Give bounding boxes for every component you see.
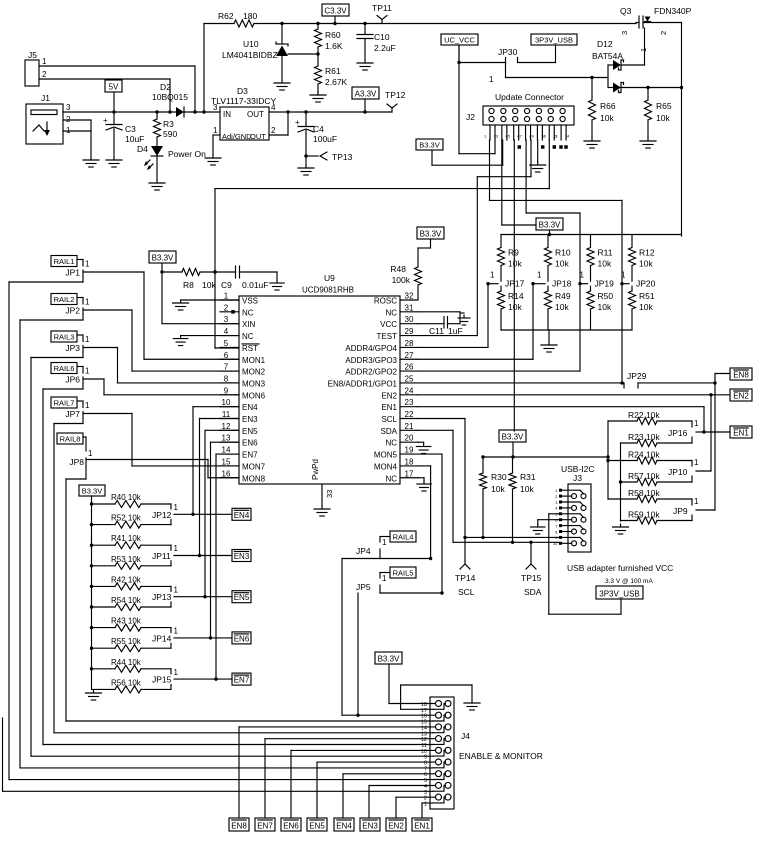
net label EN3 bottom — [360, 818, 380, 831]
resistor R49 — [545, 290, 571, 330]
svg-text:100uF: 100uF — [313, 134, 337, 144]
svg-text:VCC: VCC — [380, 320, 397, 329]
svg-text:J2: J2 — [466, 112, 475, 122]
resistor R52 — [90, 514, 171, 529]
capacitor C10 — [357, 22, 396, 60]
svg-text:10k: 10k — [508, 302, 522, 312]
wire J4 pin13 bus — [54, 732, 433, 734]
wire JP5 to J4 — [356, 593, 359, 717]
ground J2 — [530, 162, 546, 172]
svg-text:TP12: TP12 — [385, 90, 406, 100]
svg-text:1: 1 — [42, 57, 47, 66]
svg-text:JP14: JP14 — [152, 633, 172, 643]
svg-text:B3.3V: B3.3V — [420, 230, 442, 239]
resistor R31 — [509, 457, 536, 544]
svg-text:R55 10k: R55 10k — [111, 637, 142, 646]
svg-text:C10: C10 — [374, 32, 390, 42]
power label 3P3V_USB bottom — [596, 586, 643, 599]
svg-text:OUT: OUT — [247, 110, 264, 119]
J4 pin numbers — [421, 702, 427, 807]
resistor R48 — [390, 239, 430, 300]
svg-text:JP19: JP19 — [595, 279, 615, 289]
svg-text:R60: R60 — [325, 30, 341, 40]
svg-text:J3: J3 — [573, 473, 582, 483]
wire JP12 tap to EN4 — [174, 513, 232, 516]
svg-text:10k: 10k — [555, 302, 569, 312]
connector J2 Update Connector — [466, 92, 574, 125]
wire SCL pin22 — [418, 419, 465, 538]
svg-text:1: 1 — [174, 544, 179, 553]
svg-text:R24 10k: R24 10k — [628, 450, 660, 460]
svg-text:NC: NC — [385, 308, 397, 317]
svg-text:OUT: OUT — [250, 132, 266, 141]
svg-text:ROSC: ROSC — [374, 297, 397, 306]
svg-text:J5: J5 — [28, 50, 37, 60]
capacitor C11 — [418, 317, 463, 337]
wire B3.3V to J4 pin18 — [389, 664, 435, 704]
svg-text:+: + — [103, 116, 108, 125]
svg-text:C4: C4 — [313, 124, 324, 134]
jumper JP13 — [152, 585, 179, 607]
wire J2 pin to B3.3V bottom — [513, 140, 515, 431]
wire J4 pin15 bus — [66, 720, 433, 722]
wire JP1 to MON pin6 — [83, 272, 239, 359]
resistor R53 — [90, 555, 171, 570]
wire J1 pin3 rail — [63, 111, 176, 113]
ground U10 — [274, 80, 290, 90]
svg-text:7: 7 — [224, 363, 229, 372]
svg-text:RAIL6: RAIL6 — [54, 364, 75, 373]
svg-text:EN7: EN7 — [242, 451, 258, 460]
svg-text:16: 16 — [222, 469, 231, 478]
wire JP3 to MON pin8 — [83, 348, 239, 383]
svg-text:MON7: MON7 — [242, 462, 266, 471]
ground NC4 — [173, 336, 187, 346]
svg-text:10k: 10k — [202, 280, 216, 290]
wire J4 pin7 bus — [20, 767, 433, 769]
net label EN8 — [730, 368, 752, 380]
svg-text:10k: 10k — [491, 484, 505, 494]
ground D4 — [149, 180, 165, 190]
power label B3.3V pullup rail — [536, 218, 563, 236]
svg-text:TP14: TP14 — [455, 573, 476, 583]
wire pulldown ground rail — [501, 330, 632, 342]
resistor R56 — [92, 678, 172, 693]
svg-text:XIN: XIN — [242, 320, 256, 329]
svg-text:R48: R48 — [390, 264, 406, 274]
svg-text:EN4: EN4 — [234, 511, 250, 520]
svg-text:10k: 10k — [639, 302, 653, 312]
svg-text:R65: R65 — [656, 101, 672, 111]
svg-text:R43 10k: R43 10k — [111, 617, 142, 626]
net label RAIL6 — [51, 363, 77, 374]
svg-text:R40 10k: R40 10k — [111, 493, 142, 502]
power label A3.3V — [352, 87, 379, 114]
svg-text:RAIL7: RAIL7 — [54, 399, 75, 408]
text USB adapter furnished VCC — [567, 563, 673, 573]
svg-text:1: 1 — [694, 419, 699, 428]
svg-text:1: 1 — [382, 538, 387, 547]
svg-text:R51: R51 — [639, 291, 655, 301]
jumper JP10 — [668, 395, 711, 483]
J2 NC squares — [518, 145, 568, 149]
ground right pulldowns — [613, 524, 629, 534]
svg-text:EN3: EN3 — [242, 415, 258, 424]
svg-text:MON3: MON3 — [242, 379, 266, 388]
svg-text:1: 1 — [424, 801, 427, 807]
svg-text:1: 1 — [85, 335, 90, 344]
net label EN5 mid — [232, 591, 251, 603]
svg-text:UCD9081RHB: UCD9081RHB — [302, 286, 354, 295]
svg-text:2.67K: 2.67K — [325, 77, 348, 87]
power label B3.3V above R48 — [417, 227, 444, 239]
svg-text:1: 1 — [382, 574, 387, 583]
wire J4 pin1 from EN1 — [422, 803, 433, 818]
svg-text:22: 22 — [405, 410, 414, 419]
svg-text:R42 10k: R42 10k — [111, 575, 142, 584]
wire RAIL7 to J4 bus — [54, 418, 83, 733]
jumper JP16 — [668, 419, 704, 443]
svg-text:B3.3V: B3.3V — [502, 433, 524, 442]
svg-text:USB adapter furnished VCC: USB adapter furnished VCC — [567, 563, 673, 573]
power label C3.3V — [322, 4, 349, 25]
svg-text:R14: R14 — [508, 291, 524, 301]
wire J2 pin to B3.3V mid — [502, 140, 536, 225]
jumper JP12 — [152, 503, 179, 525]
resistor R11 — [587, 235, 613, 278]
resistor R24 — [608, 450, 692, 465]
wire J4 pin16 — [342, 714, 435, 716]
wire J5-2 to rail — [168, 79, 171, 114]
ground PwPd — [314, 506, 330, 516]
svg-text:R41 10k: R41 10k — [111, 534, 142, 543]
wire U9 pin11 to JP11 — [200, 419, 240, 556]
wire J2 pin to B3.3V left — [432, 140, 503, 165]
svg-text:ADDR4/GPO4: ADDR4/GPO4 — [345, 344, 397, 353]
svg-text:D4: D4 — [137, 144, 148, 154]
svg-text:33: 33 — [325, 490, 334, 498]
wire U9 pin10 to JP12 — [193, 407, 239, 515]
ground D3 Adj — [205, 155, 221, 165]
svg-text:R56 10k: R56 10k — [111, 678, 142, 687]
wire J4 pin5 bus — [9, 779, 433, 781]
svg-text:20: 20 — [405, 434, 414, 443]
svg-text:21: 21 — [405, 422, 414, 431]
svg-text:R66: R66 — [600, 101, 616, 111]
ground C9 — [270, 272, 284, 290]
svg-text:R31: R31 — [520, 472, 536, 482]
wire JP14 tap to EN6 — [174, 636, 232, 639]
svg-text:15: 15 — [222, 457, 231, 466]
svg-text:MON2: MON2 — [242, 368, 266, 377]
resistor R22 — [608, 410, 692, 425]
svg-text:UC_VCC: UC_VCC — [444, 36, 475, 45]
net label EN7 mid — [232, 673, 251, 685]
svg-text:EN7: EN7 — [257, 822, 273, 831]
svg-text:1: 1 — [174, 503, 179, 512]
J2 pin stubs and numbers — [484, 125, 570, 140]
wire EN8 net to box — [713, 374, 730, 511]
power label UC_VCC — [441, 34, 478, 63]
svg-text:180: 180 — [243, 11, 257, 21]
wire D3 pin2 OUT wrap — [269, 110, 290, 135]
svg-text:R30: R30 — [491, 472, 507, 482]
wire JP5 to MON5 — [380, 591, 444, 594]
net label EN1 bottom — [412, 818, 432, 831]
svg-text:1: 1 — [85, 298, 90, 307]
svg-text:B3.3V: B3.3V — [82, 487, 102, 496]
resistor R9 — [498, 235, 523, 278]
svg-text:R50: R50 — [598, 291, 614, 301]
svg-text:1: 1 — [537, 271, 542, 280]
svg-text:EN1: EN1 — [733, 429, 749, 438]
svg-text:RAIL1: RAIL1 — [54, 257, 75, 266]
svg-text:29: 29 — [405, 327, 414, 336]
svg-text:24: 24 — [405, 386, 414, 395]
svg-text:JP7: JP7 — [65, 409, 80, 419]
svg-text:R11: R11 — [598, 248, 613, 258]
svg-text:MON6: MON6 — [242, 391, 266, 400]
svg-text:2: 2 — [659, 31, 668, 35]
svg-text:R52 10k: R52 10k — [111, 514, 142, 523]
jumper JP17 — [486, 271, 524, 290]
wire J4 pin8 from EN5 — [317, 762, 435, 818]
ground C4 — [298, 165, 314, 175]
wire ADDR1 pin25 to JP29 — [418, 284, 624, 385]
svg-text:1: 1 — [489, 75, 494, 84]
svg-text:10k: 10k — [598, 302, 612, 312]
svg-text:17: 17 — [405, 469, 414, 478]
connector J5 — [25, 50, 195, 86]
svg-text:A3.3V: A3.3V — [355, 90, 377, 99]
wire pin20 NC ground — [418, 442, 424, 443]
jumper JP2 — [65, 298, 90, 316]
svg-text:10BQ015: 10BQ015 — [152, 92, 188, 102]
LED D4 Power On — [137, 137, 206, 180]
power label B3.3V at J2 — [416, 139, 443, 150]
svg-text:JP4: JP4 — [356, 546, 371, 556]
wire J4 pin4 from EN3 — [369, 786, 435, 819]
wire J4 pin2 from EN2 — [396, 797, 435, 818]
power label B3.3V ladder — [79, 485, 105, 689]
jumper JP18 — [531, 271, 571, 290]
wire D3 Adj to ground — [213, 135, 220, 155]
svg-text:4: 4 — [271, 103, 276, 112]
svg-text:R61: R61 — [325, 66, 341, 76]
svg-text:25: 25 — [405, 374, 414, 383]
wire JP11 tap to EN3 — [174, 554, 232, 557]
svg-text:10: 10 — [553, 541, 558, 546]
svg-text:10: 10 — [222, 398, 231, 407]
svg-text:TP11: TP11 — [372, 3, 392, 13]
wire U10 ref to divider — [288, 52, 320, 55]
svg-text:JP2: JP2 — [65, 306, 80, 316]
wire ADDR4 pin28 to JP17 — [418, 284, 488, 348]
wire pin17 NC ground — [418, 478, 424, 481]
resistor R61 — [315, 54, 348, 92]
J3 pin pads — [553, 488, 562, 546]
svg-text:EN5: EN5 — [242, 427, 258, 436]
svg-text:EN1: EN1 — [381, 403, 397, 412]
svg-text:R58 10k: R58 10k — [628, 488, 660, 498]
svg-text:RST: RST — [242, 344, 258, 353]
svg-text:RAIL5: RAIL5 — [393, 569, 414, 578]
ground ladder — [86, 690, 102, 700]
jumper JP7 — [65, 401, 90, 419]
wire J4 pin9 bus — [31, 755, 433, 757]
resistor R59 — [621, 510, 693, 525]
wire B3.3V rail JP17-JP20 — [501, 234, 682, 236]
svg-text:MON5: MON5 — [374, 451, 398, 460]
svg-text:Adj/GND: Adj/GND — [222, 132, 252, 141]
diode D2 — [152, 82, 220, 117]
svg-text:EN5: EN5 — [309, 822, 325, 831]
svg-text:JP10: JP10 — [668, 467, 688, 477]
svg-text:1: 1 — [85, 367, 90, 376]
svg-text:1: 1 — [694, 458, 699, 467]
svg-text:3.3 V @ 100 mA: 3.3 V @ 100 mA — [605, 578, 653, 585]
resistor R62 — [204, 11, 636, 27]
svg-text:MON1: MON1 — [242, 356, 266, 365]
svg-text:C9: C9 — [221, 280, 232, 290]
net label EN3 mid — [232, 550, 251, 562]
net label EN4 mid — [232, 508, 251, 520]
wire J3 ground pin — [538, 520, 559, 524]
svg-text:3P3V_USB: 3P3V_USB — [599, 590, 639, 599]
ground C3 — [106, 157, 122, 167]
test point TP12 — [385, 90, 406, 112]
wire JP4 to J4 — [342, 559, 380, 716]
net label EN6 mid — [232, 632, 251, 644]
power label B3.3V at J4 — [375, 652, 402, 664]
svg-text:27: 27 — [405, 351, 414, 360]
svg-text:SDA: SDA — [524, 587, 542, 597]
svg-text:R12: R12 — [639, 248, 655, 258]
wire J4 pin14 from EN8 — [239, 727, 435, 818]
ground C10 — [357, 60, 373, 70]
wire SDA line — [453, 541, 559, 543]
svg-text:EN2: EN2 — [733, 392, 749, 401]
svg-text:EN8: EN8 — [733, 371, 749, 380]
svg-text:JP11: JP11 — [152, 551, 171, 561]
resistor R8 — [162, 269, 236, 291]
svg-text:PwPd: PwPd — [311, 459, 320, 480]
net label EN4 bottom — [334, 818, 354, 831]
svg-text:RAIL8: RAIL8 — [60, 435, 81, 444]
U9 pin2 NC square — [231, 310, 235, 314]
svg-text:1: 1 — [580, 271, 585, 280]
resistor R65 — [645, 88, 672, 139]
jumper JP29 — [622, 371, 715, 388]
svg-text:EN6: EN6 — [283, 822, 299, 831]
svg-text:1: 1 — [621, 271, 626, 280]
svg-text:LM4041BIDBZ: LM4041BIDBZ — [222, 50, 278, 60]
svg-text:28: 28 — [405, 339, 414, 348]
wire RAIL8 to J4 bus — [66, 466, 86, 721]
jumper JP3 — [65, 335, 90, 353]
wire MON5 pin19 — [418, 454, 442, 593]
power label 5V — [105, 80, 122, 112]
svg-text:Power On: Power On — [168, 149, 206, 159]
svg-text:MON8: MON8 — [242, 474, 266, 483]
power label 3P3V_USB — [531, 34, 577, 63]
net label RAIL1 — [51, 256, 77, 267]
resistor R51 — [629, 290, 655, 330]
svg-text:TP13: TP13 — [332, 152, 353, 162]
wire J2 TEST route — [477, 140, 531, 336]
svg-text:D12: D12 — [597, 39, 613, 49]
wire U9 pin13 to JP14 — [211, 442, 240, 638]
svg-text:EN7: EN7 — [234, 676, 250, 685]
svg-text:JP30: JP30 — [498, 47, 518, 57]
svg-text:EN2: EN2 — [381, 391, 397, 400]
svg-text:1: 1 — [88, 449, 93, 458]
svg-text:R9: R9 — [508, 248, 519, 258]
test point TP13 — [304, 152, 352, 162]
svg-text:R53 10k: R53 10k — [111, 555, 142, 564]
resistor R10 — [545, 235, 571, 278]
svg-text:31: 31 — [405, 303, 414, 312]
wire J4 pin6 from EN4 — [343, 774, 435, 818]
wire NC4 to ground — [181, 335, 239, 337]
svg-text:1uF: 1uF — [448, 326, 463, 336]
svg-text:2.2uF: 2.2uF — [374, 43, 396, 53]
wire JP30 pin1 to D12 — [506, 68, 609, 80]
svg-text:23: 23 — [405, 398, 414, 407]
svg-text:1: 1 — [490, 271, 495, 280]
svg-text:5V: 5V — [109, 83, 119, 92]
wire pullup bus right — [606, 421, 609, 499]
svg-text:EN4: EN4 — [336, 822, 352, 831]
capacitor C3 — [103, 110, 144, 157]
wire ADDR3 pin27 to JP18 — [418, 284, 533, 360]
wire RAIL1 to J4 bus — [9, 277, 83, 780]
wire pulldown bus right — [619, 443, 622, 521]
svg-text:JP17: JP17 — [505, 279, 525, 289]
svg-text:6: 6 — [224, 351, 229, 360]
jumper JP1 — [65, 260, 90, 278]
resistor R14 — [498, 290, 524, 330]
svg-text:TEST: TEST — [377, 332, 398, 341]
wire TEST pin29 (drawn in J2 route) — [418, 335, 477, 337]
ground pin20 — [416, 444, 430, 454]
svg-text:R10: R10 — [555, 248, 571, 258]
resistor R55 — [90, 637, 171, 652]
connector J1 barrel jack — [26, 93, 71, 144]
dual schottky D12 BAT54A — [592, 39, 683, 93]
svg-text:SCL: SCL — [458, 587, 475, 597]
net label RAIL3 — [51, 331, 77, 342]
wire U9 pin12 to JP13 — [205, 430, 239, 596]
net label EN1 — [730, 426, 752, 438]
jumper JP11 — [152, 544, 179, 566]
svg-text:JP20: JP20 — [636, 279, 656, 289]
power label B3.3V at R8 — [149, 251, 176, 263]
svg-text:C3: C3 — [125, 124, 136, 134]
svg-text:14: 14 — [565, 134, 570, 139]
ground R66 — [584, 138, 600, 148]
svg-text:J1: J1 — [41, 93, 50, 103]
wire JP2 to MON pin7 — [83, 310, 239, 371]
svg-text:3P3V_USB: 3P3V_USB — [535, 36, 573, 45]
svg-text:MON4: MON4 — [374, 462, 398, 471]
jumper JP6 — [65, 367, 90, 385]
wire pin31 NC ground net — [418, 312, 460, 324]
resistor R43 — [90, 617, 171, 632]
svg-text:RAIL2: RAIL2 — [54, 295, 75, 304]
svg-text:RAIL4: RAIL4 — [393, 533, 414, 542]
svg-text:13: 13 — [553, 134, 558, 139]
